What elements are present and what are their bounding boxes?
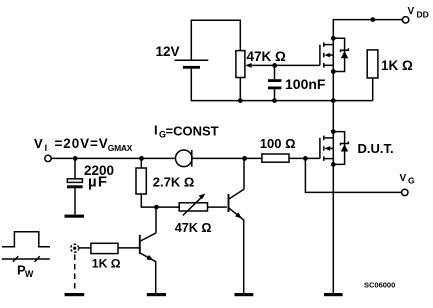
svg-text:47K Ω: 47K Ω <box>175 221 212 235</box>
pulse waveform symbol <box>2 232 50 247</box>
ground Q1 emitter <box>147 293 166 296</box>
svg-text:W: W <box>25 269 34 279</box>
node Q2 collector junction <box>242 156 247 161</box>
svg-text:=CONST: =CONST <box>166 124 219 139</box>
wire main gate line left <box>51 157 176 159</box>
svg-text:1K Ω: 1K Ω <box>92 257 121 271</box>
current source IG circle <box>176 150 193 167</box>
svg-text:I: I <box>154 123 158 138</box>
svg-text:47K Ω: 47K Ω <box>247 49 287 64</box>
resistor R 1K bottom body <box>91 243 118 253</box>
transistor M1 upper MOSFET drain node <box>331 36 336 41</box>
current source IG bar <box>191 150 193 167</box>
wire 2.7K bottom lead <box>141 194 179 207</box>
wire 12V loop top <box>191 20 240 59</box>
label VI =20V=VGMAX <box>34 136 133 153</box>
node C1 bottom junction <box>272 98 277 103</box>
label IG=CONST <box>154 123 219 140</box>
terminal VDD <box>402 17 408 23</box>
svg-text:100nF: 100nF <box>285 76 326 92</box>
capacitor C1 100nF plates <box>268 79 281 82</box>
capacitor C2 2200uF top plate <box>67 179 82 183</box>
wire pot bottom lead <box>239 78 241 101</box>
wire 1K bottom lead <box>372 78 374 101</box>
node 2200uF junction <box>73 156 78 161</box>
transistor M2 DUT MOSFET <box>320 132 333 165</box>
node pulse terminal dot <box>73 247 76 250</box>
resistor R 2.7K body <box>136 168 146 194</box>
resistor R 100 ohm body <box>262 154 289 162</box>
transistor Q1 <box>140 233 156 293</box>
svg-text:1K Ω: 1K Ω <box>381 58 413 73</box>
wire DUT source to ground <box>332 164 334 293</box>
node VG branch junction <box>303 156 308 161</box>
transistor M1 upper MOSFET <box>320 38 333 71</box>
svg-text:12V: 12V <box>156 44 180 59</box>
pulse waveform time axis <box>2 258 50 260</box>
terminal pulse input dashed circle <box>71 244 79 252</box>
svg-text:V: V <box>408 6 415 17</box>
wire 47K to Q2 base <box>208 206 227 208</box>
svg-text:V: V <box>400 173 407 184</box>
capacitor C2 2200uF top lead <box>74 158 76 178</box>
battery B1 bottom plate <box>183 66 200 69</box>
terminal VG <box>402 189 408 195</box>
rheostat 47K arrow <box>183 194 206 216</box>
wire VG branch <box>305 158 401 192</box>
pulse waveform axis break slashes <box>13 256 40 262</box>
node mid rail junction <box>331 98 336 103</box>
svg-text:µF: µF <box>88 173 108 190</box>
svg-text:=20V=V: =20V=V <box>55 136 109 151</box>
ground Q2 emitter <box>235 293 254 296</box>
ground DUT source <box>324 293 343 296</box>
svg-text:100 Ω: 100 Ω <box>260 136 296 151</box>
potentiometer wiper arrow <box>251 64 320 66</box>
wire Q1 collector up <box>155 207 157 233</box>
svg-text:SC06000: SC06000 <box>364 280 395 289</box>
wire dashed terminal to 1K <box>79 247 91 249</box>
wire main gate line middle <box>192 157 262 159</box>
wire Q2 collector up <box>243 158 245 189</box>
node 2.7K junction <box>139 156 144 161</box>
node Q1 collector junction <box>154 205 159 210</box>
rheostat R 47K body <box>179 203 207 211</box>
node DUT source junction <box>331 162 336 167</box>
battery B1 top plate <box>175 59 209 61</box>
potentiometer R 47K body <box>236 51 245 78</box>
transistor Q2 <box>229 189 245 293</box>
wire mid rail to DUT drain <box>332 101 334 132</box>
node M1 source junction <box>331 69 336 74</box>
wire dashed to ground <box>74 255 76 292</box>
svg-text:I: I <box>45 143 48 153</box>
label PW <box>17 262 34 279</box>
node pot bottom junction <box>238 98 243 103</box>
wire battery negative to bottom rail <box>191 69 372 101</box>
svg-text:2.7K Ω: 2.7K Ω <box>153 175 195 190</box>
svg-text:V: V <box>34 136 43 151</box>
wire main gate line right <box>289 157 320 159</box>
capacitor C1 bottom lead <box>274 89 276 100</box>
transistor M2 DUT drain node <box>331 129 336 134</box>
svg-text:G: G <box>408 176 415 186</box>
capacitor C1 100nF top lead <box>274 65 276 79</box>
wire M1 source down to mid rail <box>332 72 334 101</box>
wire 1K to Q1 base <box>118 247 139 249</box>
wire top right rail <box>333 20 402 39</box>
svg-text:D.U.T.: D.U.T. <box>358 141 394 156</box>
ground pulse input <box>65 293 85 296</box>
node 1K top junction <box>370 17 375 22</box>
terminal VI input <box>45 155 51 161</box>
svg-text:DD: DD <box>417 10 429 20</box>
diode D1 body diode of M1 <box>333 38 348 71</box>
resistor R 2.7K top lead <box>140 158 142 168</box>
ground C2 <box>65 215 85 218</box>
diode D2 body diode of DUT <box>333 132 348 165</box>
resistor R 1K top body <box>367 50 378 78</box>
node C1 top junction <box>272 63 277 68</box>
capacitor C2 2200uF bottom plate <box>67 185 83 188</box>
svg-text:GMAX: GMAX <box>108 143 133 153</box>
capacitor C2 bottom lead <box>74 188 76 214</box>
